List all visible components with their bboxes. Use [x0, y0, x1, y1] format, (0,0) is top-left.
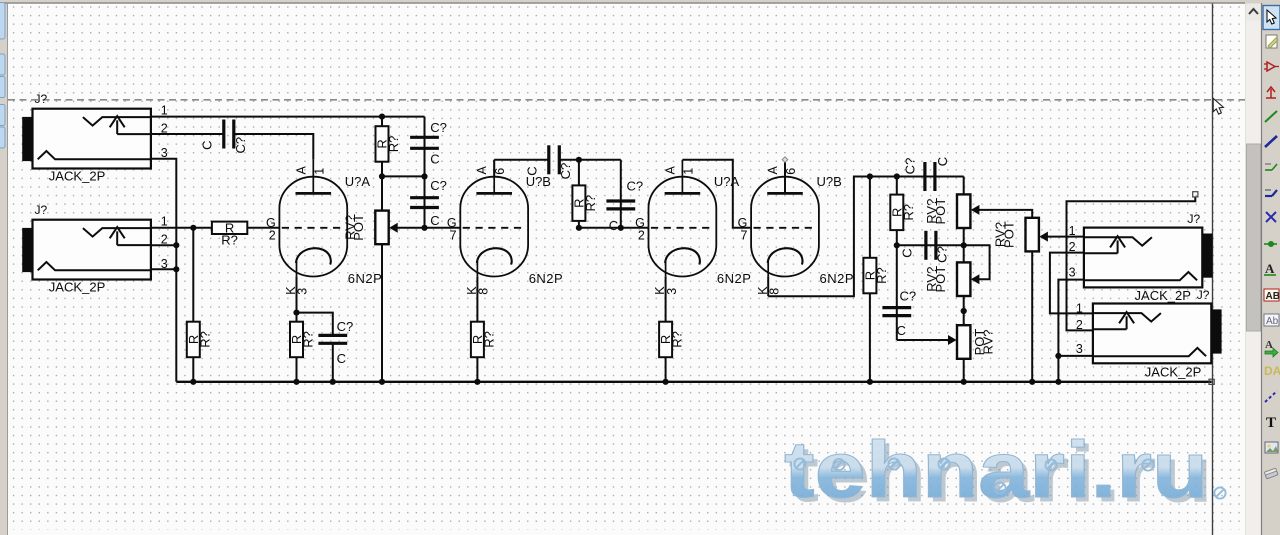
wire R8 vertical	[869, 177, 871, 382]
toolbar icon net label	[1264, 261, 1276, 276]
ground rail wire	[176, 381, 1211, 383]
resistor R2 grid leak body	[187, 322, 200, 358]
junction rail x=477.4	[474, 379, 480, 385]
connector J4 JACK_2P ring contact arrow	[1126, 316, 1128, 329]
triode U2A cathode pin	[476, 262, 478, 277]
svg-text:C?: C?	[900, 289, 917, 304]
svg-text:C: C	[430, 213, 439, 228]
sheet boundary vertical	[1212, 4, 1214, 535]
wire C4 to R6 node	[559, 159, 621, 161]
connector J4 JACK_2P sleeve	[1211, 309, 1221, 353]
wire U3B cathode down	[767, 276, 769, 296]
connector J2 JACK_2P sleeve contact	[38, 262, 151, 270]
capacitor C4 coupling plates	[549, 145, 560, 174]
left toolbar button 1	[0, 3, 5, 40]
svg-text:J?: J?	[35, 92, 48, 106]
svg-text:C?: C?	[430, 120, 447, 135]
triode U3B anode pin	[784, 160, 786, 194]
wire R1 top lead	[381, 117, 383, 127]
svg-text:POT: POT	[933, 198, 948, 225]
resistor R7 cathode body	[659, 322, 672, 358]
triode U3A cathode arc	[665, 248, 700, 264]
wire C2 to U1A anode	[234, 134, 313, 160]
left toolbar edge line	[7, 3, 9, 535]
wire RV5 bottom to rail	[1031, 252, 1033, 382]
toolbar icon power port	[1266, 87, 1276, 98]
svg-text:7: 7	[450, 229, 457, 243]
svg-text:6: 6	[493, 168, 507, 175]
connector J3 JACK_2P sleeve	[1202, 234, 1212, 278]
toolbar icon image	[1265, 442, 1278, 453]
junction rail x=1032.2	[1029, 379, 1035, 385]
triode U1A envelope	[279, 177, 347, 277]
svg-text:R?: R?	[221, 233, 238, 248]
svg-text:6N2P: 6N2P	[820, 271, 855, 286]
junction C1a bottom node	[421, 173, 427, 179]
triode U2A cathode arc	[477, 248, 512, 264]
svg-text:POT: POT	[351, 214, 366, 241]
junction J2 pin3	[173, 266, 179, 272]
connector J2 JACK_2P tip contact	[83, 228, 151, 237]
toolbar icon wire-bus entry	[1265, 164, 1277, 170]
svg-text:C?: C?	[903, 158, 918, 175]
svg-text:R?: R?	[301, 331, 316, 348]
rail end square	[1209, 379, 1214, 384]
wire cathode follower output	[768, 177, 964, 297]
toolbar icon bus-bus entry	[1265, 190, 1277, 196]
svg-text:JACK_2P: JACK_2P	[49, 169, 106, 184]
toolbar icon import hier sheet	[1265, 339, 1278, 357]
connector J1 JACK_2P body	[33, 109, 151, 169]
wire C5 vertical	[620, 160, 622, 228]
connector J3 JACK_2P tip contact	[1084, 237, 1152, 246]
svg-text:7: 7	[740, 229, 747, 243]
svg-text:U?A: U?A	[345, 174, 371, 189]
connector J1 JACK_2P ring contact arrow	[116, 120, 118, 134]
potentiometer RV3 tone body	[957, 262, 970, 296]
svg-text:C?: C?	[337, 319, 354, 334]
connector J4 JACK_2P ring wire	[1093, 328, 1127, 330]
svg-text:C: C	[525, 166, 540, 175]
potentiometer RV5 volume wiper arrow	[1039, 232, 1048, 242]
wire C1 stack vertical	[424, 117, 426, 228]
toolbar icon cursor (selected)	[1263, 6, 1280, 30]
svg-text:R?: R?	[901, 204, 916, 221]
pin end marker U3B anode	[782, 157, 788, 163]
capacitor C1a plates	[410, 137, 439, 148]
junction grid leak node	[190, 225, 196, 231]
watermark screw circles	[794, 458, 1225, 498]
connector J3 JACK_2P ring wire	[1084, 252, 1118, 254]
resistor R9 body	[890, 195, 903, 231]
wire C8 to RV4 wiper	[897, 339, 953, 341]
triode U3B anode bar	[767, 192, 803, 195]
watermark tehnari.ru shadow	[784, 426, 1226, 520]
toolbar icon add component	[1264, 62, 1279, 71]
wire RV1 wiper to U2A grid	[391, 227, 460, 229]
junction rail x=963.7	[961, 379, 967, 385]
svg-text:8: 8	[767, 288, 781, 295]
triode U3A anode bar	[665, 192, 701, 195]
left toolbar button 3	[0, 77, 5, 98]
triode U3A grid dashes	[651, 227, 714, 229]
connector J2 JACK_2P ring wire	[117, 244, 151, 246]
wire tone pots vertical	[963, 177, 965, 382]
wire end square	[1193, 192, 1198, 197]
junction output node R9	[894, 173, 900, 179]
svg-text:A: A	[1265, 261, 1275, 276]
triode U3A cathode pin	[665, 262, 667, 277]
svg-text:JACK_2P: JACK_2P	[49, 280, 106, 295]
junction rail x=193.3	[190, 379, 196, 385]
triode U3B envelope	[751, 177, 819, 277]
svg-text:T: T	[1266, 415, 1276, 431]
wire C8 vertical	[896, 245, 898, 340]
wire R6 vertical	[578, 160, 580, 228]
junction R6 top	[576, 157, 582, 163]
connector J3 JACK_2P body	[1084, 228, 1202, 288]
wire J1 pin3 down to J2 ring node	[151, 159, 176, 246]
wire R4 to rail	[296, 357, 298, 382]
junction R1 top	[379, 114, 385, 120]
svg-text:1: 1	[312, 168, 326, 175]
connector J1 JACK_2P sleeve contact	[38, 151, 151, 159]
capacitor C7 tone mid plates	[926, 231, 936, 260]
svg-text:A: A	[663, 166, 677, 175]
wire junction row link	[382, 175, 425, 177]
svg-text:J?: J?	[1188, 212, 1201, 226]
svg-text:1: 1	[681, 168, 695, 175]
capacitor C6 tone top plates	[925, 162, 935, 191]
svg-text:R?: R?	[386, 136, 401, 153]
wire R1 bottom to junction row	[381, 162, 383, 211]
svg-text:C: C	[897, 323, 906, 338]
svg-text:R?: R?	[197, 331, 212, 348]
potentiometer RV2 tone body	[957, 194, 970, 228]
toolbar icon sheet pin	[1264, 364, 1280, 378]
potentiometer RV4 tone body	[957, 325, 970, 359]
svg-text:R?: R?	[874, 267, 889, 284]
svg-text:3: 3	[1076, 342, 1083, 356]
junction U1A cathode node	[293, 310, 299, 316]
connector J1 JACK_2P sleeve	[22, 117, 32, 161]
toolbar icon no connect	[1266, 212, 1276, 222]
svg-text:6N2P: 6N2P	[348, 271, 383, 286]
svg-text:R?: R?	[583, 195, 598, 212]
toolbar icon hierarchy sheet	[1266, 35, 1278, 48]
resistor R3 series body	[212, 222, 247, 234]
svg-text:J?: J?	[35, 203, 48, 217]
svg-text:JACK_2P: JACK_2P	[1135, 288, 1192, 303]
wire J3 pin2 to J4 pin1	[1050, 253, 1093, 314]
toolbar icon delete	[1264, 468, 1278, 479]
svg-text:U?A: U?A	[714, 174, 740, 189]
svg-text:C?: C?	[558, 163, 573, 180]
wire C3 to rail	[332, 343, 334, 382]
capacitor C1b plates	[410, 198, 439, 208]
triode U3B cathode pin	[767, 262, 769, 277]
junction RV3 bottom	[961, 308, 967, 314]
svg-text:C: C	[430, 152, 439, 167]
wire R9 vertical	[896, 177, 898, 246]
triode U2A anode bar	[476, 192, 512, 195]
scrollbar thumb	[1247, 144, 1261, 331]
triode U1A anode bar	[296, 192, 332, 195]
svg-text:R?: R?	[481, 331, 496, 348]
toolbar icon global label	[1264, 289, 1280, 302]
connector J4 JACK_2P body	[1093, 304, 1211, 364]
svg-text:3: 3	[1069, 266, 1076, 280]
connector J3 JACK_2P ring contact arrow	[1117, 240, 1119, 253]
triode U3B grid dashes	[754, 227, 817, 229]
junction C1b grid node	[421, 225, 427, 231]
wire J1 pin2 to C2 left	[151, 133, 224, 135]
svg-text:C: C	[935, 157, 950, 166]
scrollbar up arrow glyph	[1249, 9, 1258, 14]
svg-text:C: C	[900, 248, 915, 257]
potentiometer RV4 tone wiper arrow	[948, 335, 957, 345]
svg-text:C: C	[200, 141, 215, 150]
capacitor C3 cathode bypass plates	[318, 335, 347, 343]
canvas top border	[0, 2, 1245, 4]
triode U2A envelope	[460, 177, 528, 277]
junction RV2 bottom	[961, 242, 967, 248]
wire J4 pin3	[1058, 355, 1093, 357]
svg-text:1: 1	[161, 214, 168, 228]
scrollbar up button	[1246, 4, 1262, 21]
connector J2 JACK_2P body	[33, 220, 151, 280]
wire RV1 bottom to ground rail	[381, 244, 383, 381]
wire node2 row	[897, 244, 964, 246]
potentiometer RV2 tone wiper arrow	[971, 205, 980, 215]
resistor R1 body	[376, 126, 389, 162]
toolbar icon hier label	[1264, 314, 1279, 327]
toolbar icon bus	[1265, 136, 1277, 147]
wire RV5 wiper to J3 pin1	[1041, 236, 1084, 238]
potentiometer RV1 body	[375, 211, 388, 245]
wire J1 pin1 to R1/C1 node	[151, 116, 425, 118]
junction output node R8	[867, 173, 873, 179]
connector J1 JACK_2P ring wire	[117, 133, 151, 135]
svg-text:Ab: Ab	[1266, 316, 1279, 327]
toolbar icon junction	[1264, 241, 1277, 247]
left toolbar button 5	[0, 127, 5, 148]
junction rail x=869.9	[867, 379, 873, 385]
wire U2A anode up	[493, 160, 495, 177]
svg-text:6: 6	[784, 168, 798, 175]
junction rail x=382.0	[379, 379, 385, 385]
wire J2 pin2 stub	[151, 244, 176, 246]
right toolbar background	[1262, 3, 1280, 535]
resistor R6 grid body	[572, 185, 585, 221]
svg-text:R?: R?	[670, 331, 685, 348]
svg-text:JACK_2P: JACK_2P	[1145, 364, 1202, 379]
triode U1A grid dashes	[282, 227, 345, 229]
svg-text:2: 2	[269, 229, 276, 243]
svg-text:POT: POT	[933, 266, 948, 293]
junction J4 pin3 node	[1055, 353, 1061, 359]
wire R7 to rail	[665, 357, 667, 382]
wire cathode bypass branch	[297, 313, 333, 336]
resistor R4 cathode body	[290, 322, 303, 358]
resistor R8 body	[863, 258, 876, 294]
svg-text:A: A	[294, 166, 308, 175]
svg-text:3: 3	[665, 288, 679, 295]
capacitor C8 plates	[882, 308, 911, 316]
toolbar icon graphic polyline	[1265, 391, 1277, 402]
svg-text:2: 2	[638, 229, 645, 243]
svg-text:RV?: RV?	[981, 329, 996, 354]
left toolbar button 2	[0, 54, 5, 75]
left toolbar button 4	[0, 105, 5, 126]
svg-text:DA: DA	[1264, 364, 1280, 378]
connector J1 JACK_2P tip contact	[83, 117, 151, 126]
triode U1A cathode pin	[296, 262, 298, 277]
connector J2 JACK_2P ring contact arrow	[116, 231, 118, 245]
svg-text:C?: C?	[627, 179, 644, 194]
connector J4 JACK_2P tip contact	[1093, 313, 1161, 322]
junction J2 pin2	[173, 242, 179, 248]
wire to U3A grid	[579, 227, 649, 229]
connector J4 JACK_2P sleeve contact	[1093, 348, 1206, 356]
svg-text:J?: J?	[1197, 288, 1210, 302]
wire RV2 wiper to RV5	[972, 210, 1032, 218]
mouse cursor	[1213, 98, 1223, 114]
connector J2 JACK_2P sleeve	[22, 228, 32, 272]
wire J4 pin2 loop up	[1067, 197, 1196, 331]
junction rail x=296.5	[293, 379, 299, 385]
junction R1 bottom node	[379, 173, 385, 179]
svg-text:A: A	[766, 166, 780, 175]
wire J2 pin3 stub	[151, 268, 176, 270]
svg-text:A: A	[475, 166, 489, 175]
triode U2A grid dashes	[463, 227, 526, 229]
wire U1A cathode down	[296, 276, 298, 321]
wire U3A anode to U3B grid	[682, 160, 751, 228]
wire grid leak vertical	[192, 228, 194, 382]
resistor R5 cathode body	[471, 322, 484, 358]
triode U1A cathode arc	[296, 248, 331, 264]
junction C5 bottom	[618, 225, 624, 231]
svg-text:AB: AB	[1266, 291, 1280, 302]
vertical scrollbar track	[1246, 4, 1262, 535]
svg-text:C?: C?	[935, 246, 950, 263]
connector J3 JACK_2P sleeve contact	[1084, 272, 1197, 280]
wire U3A cathode down	[665, 276, 667, 321]
sheet boundary dashed horizontal	[8, 99, 1245, 101]
wire J2 ground vertical	[175, 245, 177, 382]
wire R5 to rail	[476, 357, 478, 382]
wire J2 pin1 to R3	[151, 227, 212, 229]
svg-text:1: 1	[1069, 224, 1076, 238]
svg-text:1: 1	[161, 103, 168, 117]
triode U3B cathode arc	[768, 248, 803, 264]
junction rail x=1058.4	[1055, 379, 1061, 385]
toolbar icon wire	[1265, 111, 1277, 122]
svg-text:6N2P: 6N2P	[529, 271, 564, 286]
wire U2A cathode down	[476, 276, 478, 321]
wire U2A anode to C4	[494, 159, 549, 161]
svg-text:6N2P: 6N2P	[717, 271, 752, 286]
svg-text:A: A	[1265, 339, 1273, 351]
junction R6 bottom	[576, 225, 582, 231]
wire J3 pin3 to ground	[1058, 280, 1084, 382]
svg-text:3: 3	[296, 288, 310, 295]
triode U2A anode pin	[493, 160, 495, 194]
potentiometer RV3 tone wiper arrow	[971, 274, 980, 284]
junction rail x=665.6	[663, 379, 669, 385]
wire U3B anode dangling	[784, 160, 786, 194]
junction rail x=332.8	[330, 379, 336, 385]
triode U1A anode pin	[312, 160, 314, 194]
capacitor C2 plates	[224, 120, 234, 149]
svg-text:C: C	[337, 351, 346, 366]
toolbar icon text	[1266, 415, 1276, 431]
svg-text:C?: C?	[233, 137, 248, 154]
capacitor C5 plates	[606, 201, 635, 209]
junction R9 bottom node2	[894, 242, 900, 248]
triode U3A anode pin	[681, 160, 683, 194]
svg-text:C: C	[609, 218, 618, 233]
svg-text:U?B: U?B	[817, 174, 842, 189]
wire R3 to U1A grid	[247, 227, 279, 229]
svg-text:C?: C?	[430, 178, 447, 193]
svg-text:8: 8	[477, 288, 491, 295]
potentiometer RV1 wiper arrow	[389, 223, 398, 233]
potentiometer RV5 volume body	[1026, 218, 1039, 252]
svg-text:POT: POT	[1001, 221, 1016, 248]
triode U3A envelope	[649, 177, 717, 277]
wire RV3 wiper loop	[964, 245, 990, 279]
